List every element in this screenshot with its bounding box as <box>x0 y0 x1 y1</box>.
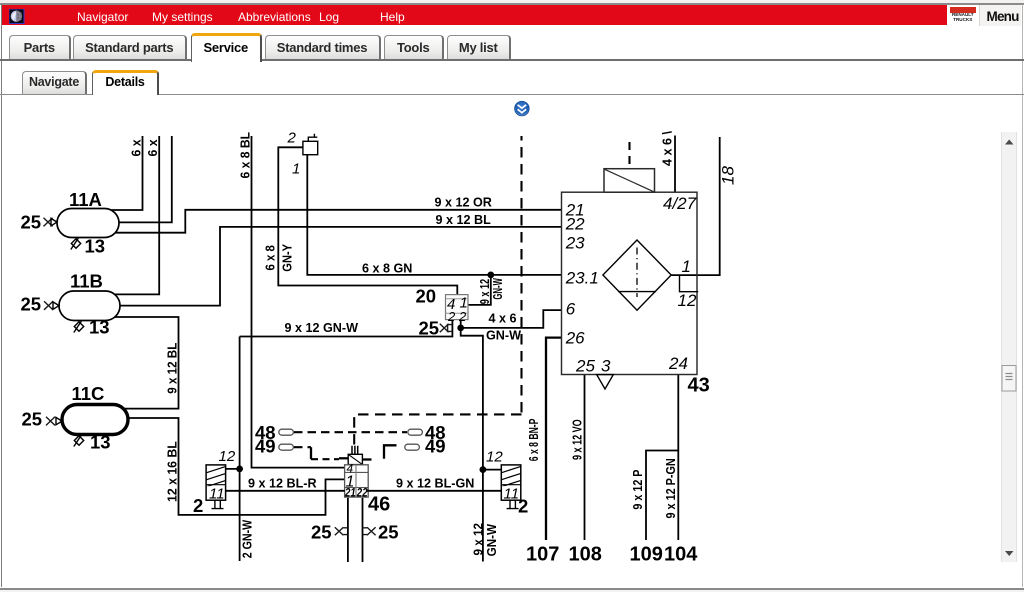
air dryer unit box <box>562 192 698 374</box>
unit pin labels <box>565 200 585 219</box>
top frame border <box>0 3 1024 5</box>
tab Service (active) <box>191 33 262 61</box>
drain valve at tank 11C <box>74 435 84 446</box>
right frame border <box>1022 4 1023 587</box>
label 6 x 8 (rotated) <box>264 245 278 270</box>
pressure sensor 2/1 <box>303 134 318 155</box>
terminal capsule 49 left <box>279 444 294 450</box>
label GN-W (rotated, upper) <box>491 278 505 300</box>
label 108 <box>569 544 602 566</box>
dashed control line horizontal to valve 46 <box>354 414 521 444</box>
label 9 x 12 (rotated, lower) <box>471 523 485 556</box>
label GN-Y (rotated) <box>280 243 294 271</box>
svg-text:21: 21 <box>344 486 356 500</box>
renault trucks logo <box>947 5 980 26</box>
label 9 x 12 BL (rotated) <box>166 342 180 393</box>
svg-text:2: 2 <box>518 496 528 517</box>
label 25 (test point at 20) <box>419 318 440 339</box>
svg-text:12 x 16 BL: 12 x 16 BL <box>166 441 180 502</box>
test point 25 right below 46 <box>363 527 376 535</box>
wire 9 x 12 GN-W : to connector 20 bottom-left pin <box>240 320 453 337</box>
wire 9 x 12 BL-GN : 46 pin 22 to coil 11 right <box>366 490 501 492</box>
dashed control line vertical <box>520 136 522 414</box>
connector 20 <box>446 295 469 325</box>
svg-text:25: 25 <box>575 357 595 376</box>
svg-text:22: 22 <box>356 486 368 500</box>
port 12 notch on unit right <box>680 275 699 292</box>
svg-text:GN-Y: GN-Y <box>280 243 294 271</box>
label 13 (tank 11A) <box>85 236 106 257</box>
test point 25 at connector 20 <box>440 324 452 332</box>
label 9 x 12 OR <box>435 196 492 210</box>
label 2 (coil right) <box>518 496 528 517</box>
svg-text:49: 49 <box>255 435 276 456</box>
svg-text:12: 12 <box>486 448 503 465</box>
label 12 x 16 BL (rotated) <box>166 441 180 502</box>
label 6 x 8 BL (rotated) <box>238 132 252 179</box>
tab My list <box>447 35 512 59</box>
svg-text:6: 6 <box>566 300 576 319</box>
label 9 x 12 GN-W <box>285 321 359 335</box>
svg-text:18: 18 <box>718 166 737 185</box>
wire 6x8 from tank 11B port1 up <box>112 136 159 294</box>
svg-text:20: 20 <box>416 286 437 307</box>
svg-text:25: 25 <box>419 318 440 339</box>
svg-text:25: 25 <box>378 522 399 543</box>
svg-text:13: 13 <box>89 317 110 338</box>
tab Parts <box>9 35 71 59</box>
wire 9 x 12 BL-R : coil 11 left to 46 pin 21 <box>226 490 345 492</box>
sub tab row bottom line <box>0 94 1024 95</box>
wire pins below valve 46 <box>348 498 363 562</box>
terminal capsule 48 left <box>279 429 294 435</box>
dashed link 49 left <box>294 447 348 459</box>
svg-text:2: 2 <box>287 130 297 147</box>
svg-text:11C: 11C <box>72 383 105 404</box>
label 6 x (line x142) <box>129 140 143 157</box>
label 9 x 12 P-GN (rotated) <box>664 458 678 518</box>
svg-text:6 x 8 GN: 6 x 8 GN <box>362 261 412 275</box>
junction dot below connector 20 <box>457 325 464 332</box>
label 25 (below 46 left) <box>311 522 332 543</box>
svg-text:26: 26 <box>565 329 585 348</box>
svg-text:6 x 8: 6 x 8 <box>264 245 278 270</box>
svg-text:25: 25 <box>22 409 43 430</box>
terminal capsule 48 right <box>408 429 423 435</box>
svg-text:13: 13 <box>90 432 111 453</box>
dryer diamond symbol <box>603 240 671 310</box>
filter on top of unit <box>604 169 655 193</box>
label 49 right <box>425 435 446 456</box>
label 48 right <box>425 422 446 443</box>
wire 9 x 12 P-GN : unit port 24 down to 104, branch 9 x 12 P to 109 <box>646 375 678 540</box>
blue collapse chevron icon <box>515 101 530 116</box>
air tank 11C (highlighted) <box>62 405 128 435</box>
svg-text:12: 12 <box>678 291 697 310</box>
label 9 x 12 BL-R <box>248 477 317 491</box>
svg-text:9 x 12 BL-GN: 9 x 12 BL-GN <box>396 477 474 491</box>
check valve at tank 11B <box>44 301 59 310</box>
junction dot at coil 11 right <box>480 466 487 473</box>
label 6 x 8 GN <box>362 261 412 275</box>
label 11A <box>69 189 102 210</box>
wire 12 x 16 BL : tank 11C port2 to valve 46 pin 1 <box>121 418 345 515</box>
globe icon in red bar <box>9 9 25 24</box>
svg-text:12: 12 <box>219 448 236 465</box>
label 9 x 12 VO (rotated) <box>570 419 584 460</box>
svg-text:11A: 11A <box>69 189 102 210</box>
svg-text:9 x 12 OR: 9 x 12 OR <box>435 196 492 210</box>
wire 6x8 from tank 11A port1 up <box>111 136 143 210</box>
svg-text:49: 49 <box>425 435 446 456</box>
label 25 (tank 11A) <box>21 212 42 233</box>
solenoid coil 11 left <box>204 465 227 509</box>
svg-text:9 x 12 P-GN: 9 x 12 P-GN <box>664 458 678 518</box>
wire 9 x 12 BL : tank 11B port3 down to tank 11C port1 <box>112 317 179 409</box>
label 20 <box>416 286 437 307</box>
label 49 left <box>255 435 276 456</box>
label 4 x 6 <box>489 311 517 325</box>
label 25 (below 46 right) <box>378 522 399 543</box>
label 11B <box>70 271 103 292</box>
label 109 <box>630 544 663 566</box>
red menu bar <box>2 5 1020 26</box>
wire 6 x 8 GN : sensor 1 to unit port 23.1 <box>307 155 561 275</box>
wire 6 x 8 BL : top to valve 46 pin 4 <box>252 136 345 468</box>
label 9 x 12 BL <box>436 213 492 227</box>
subtab Details (active) <box>92 70 159 96</box>
label 12 (coil right) <box>486 448 503 465</box>
top light strip <box>0 0 1024 3</box>
label GN-W <box>486 329 521 343</box>
solenoid valve 46 pilot box <box>348 446 363 466</box>
left frame border <box>1 4 3 587</box>
label 11C <box>72 383 105 404</box>
label 18 (rotated italic) <box>718 166 737 185</box>
dashed link 48 <box>294 431 407 433</box>
wire from tank 11A port2 up <box>115 136 172 222</box>
footer strip <box>0 590 1024 592</box>
svg-text:2: 2 <box>193 495 203 516</box>
svg-text:23.1: 23.1 <box>565 269 599 288</box>
junction dot on 6x8 GN wire <box>487 272 494 279</box>
label 4 x 6 \ (rotated) <box>660 130 674 166</box>
label 2 (sensor) <box>287 130 297 147</box>
subtab Navigate <box>22 71 87 94</box>
label 2 (coil left) <box>193 495 203 516</box>
bottom frame line <box>0 588 1024 590</box>
label 43 <box>688 375 710 397</box>
svg-text:9 x 12: 9 x 12 <box>478 279 492 304</box>
dash-dot stub above filter <box>628 142 630 169</box>
svg-text:23: 23 <box>565 233 585 252</box>
svg-text:2: 2 <box>447 309 456 324</box>
svg-text:6 x: 6 x <box>129 140 143 157</box>
label 12 (coil left) <box>219 448 236 465</box>
tab Tools <box>384 35 445 59</box>
check valve at tank 11C <box>46 417 62 426</box>
svg-text:GN-W: GN-W <box>491 278 505 300</box>
svg-text:3: 3 <box>601 357 611 376</box>
svg-text:9 x 12 BL-R: 9 x 12 BL-R <box>248 477 317 491</box>
label 25 (tank 11C) <box>22 409 43 430</box>
Menu button <box>979 5 1021 26</box>
air tank 11A <box>57 209 119 238</box>
label 107 <box>526 544 559 566</box>
tab Standard times <box>265 35 381 59</box>
label 6 x (line x159) <box>146 140 160 157</box>
svg-text:11: 11 <box>504 485 520 502</box>
svg-text:13: 13 <box>85 236 106 257</box>
svg-text:1: 1 <box>292 161 300 178</box>
label 2 GN-W (rotated) <box>240 520 254 559</box>
check valve at tank 11A <box>44 218 58 227</box>
label 46 <box>368 494 390 516</box>
wire 9 x 12 OR : tank 11A port3 to unit port 21 <box>111 210 562 233</box>
svg-text:107: 107 <box>526 544 559 566</box>
label 9 x 12 (rotated, upper) <box>478 279 492 304</box>
svg-text:11B: 11B <box>70 271 103 292</box>
svg-text:6 x 8 BL: 6 x 8 BL <box>238 132 252 179</box>
svg-text:25: 25 <box>21 212 42 233</box>
svg-text:109: 109 <box>630 544 663 566</box>
svg-text:9 x 12 P: 9 x 12 P <box>631 470 645 510</box>
svg-text:25: 25 <box>21 294 42 315</box>
wire 4 x 6 : top into unit port 4/27 <box>674 136 676 193</box>
connector 20 bottom-right pin, branches to port 6 and down <box>461 310 562 561</box>
svg-text:GN-W: GN-W <box>486 329 521 343</box>
exhaust triangle at unit port 3 <box>597 375 614 389</box>
label GN-W (rotated, lower) <box>485 524 499 557</box>
junction dot at coil 11 left <box>236 466 243 473</box>
svg-text:GN-W: GN-W <box>485 524 499 557</box>
connector 20 to 6x8GN junction wire <box>468 275 491 305</box>
svg-text:22: 22 <box>565 215 585 234</box>
svg-text:2 GN-W: 2 GN-W <box>240 520 254 559</box>
label 6 x 8 BN-P (rotated) <box>527 419 541 462</box>
label 9 x 12 P (rotated) <box>631 470 645 510</box>
wire 2 GN-W : vertical down to bottom, junction to coil 11 left <box>226 337 240 562</box>
svg-text:1: 1 <box>682 257 691 276</box>
label 9 x 12 BL-GN <box>396 477 474 491</box>
label 1 (sensor) <box>292 161 300 178</box>
svg-text:43: 43 <box>688 375 710 397</box>
wire 18 : unit port 1 up <box>671 137 719 275</box>
svg-text:9 x 12 BL: 9 x 12 BL <box>436 213 492 227</box>
terminal capsule 49 right <box>405 444 420 450</box>
test point 25 left below 46 <box>335 527 348 535</box>
wire 6 x 8 GN-Y : sensor 1 to connector 20 top <box>278 147 457 294</box>
dashed link 49 right <box>362 445 396 459</box>
svg-text:9 x 12: 9 x 12 <box>471 523 485 556</box>
svg-text:108: 108 <box>569 544 602 566</box>
wire 6 x 8 BN-P : unit port 26 down to 107 <box>546 338 562 540</box>
svg-text:2: 2 <box>458 309 467 324</box>
main tab row bottom line <box>0 59 1024 61</box>
label 48 left <box>255 422 276 443</box>
svg-text:4 x 6: 4 x 6 <box>489 311 517 325</box>
air tank 11B <box>59 291 120 321</box>
label 13 (tank 11C) <box>90 432 111 453</box>
solenoid coil 11 right <box>499 465 522 509</box>
label 104 <box>664 544 698 566</box>
svg-text:9 x 12 VO: 9 x 12 VO <box>570 419 584 460</box>
red bar menu texts <box>77 10 128 24</box>
svg-text:104: 104 <box>664 544 698 566</box>
tab Standard parts <box>73 35 188 59</box>
label 13 (tank 11B) <box>89 317 110 338</box>
svg-text:25: 25 <box>311 522 332 543</box>
svg-text:6 x: 6 x <box>146 140 160 157</box>
svg-text:4/27: 4/27 <box>663 194 697 213</box>
svg-text:24: 24 <box>668 354 688 373</box>
svg-text:11: 11 <box>209 485 225 502</box>
svg-text:9 x 12 BL: 9 x 12 BL <box>166 342 180 393</box>
connector block 46 <box>344 461 368 499</box>
drain valve at tank 11A <box>71 238 81 249</box>
label 25 (tank 11B) <box>21 294 42 315</box>
svg-text:46: 46 <box>368 494 390 516</box>
svg-text:9 x 12 GN-W: 9 x 12 GN-W <box>285 321 359 335</box>
wire 9 x 12 VO : unit port 25 down to 108 <box>584 375 586 540</box>
wire 9 x 12 BL : tank 11B port2 to unit port 22 <box>114 227 562 306</box>
drain valve at tank 11B <box>74 321 84 332</box>
scrollbar <box>1001 132 1018 562</box>
svg-text:6 x 8 BN-P: 6 x 8 BN-P <box>527 419 541 462</box>
svg-text:4 x 6 \: 4 x 6 \ <box>660 130 674 166</box>
